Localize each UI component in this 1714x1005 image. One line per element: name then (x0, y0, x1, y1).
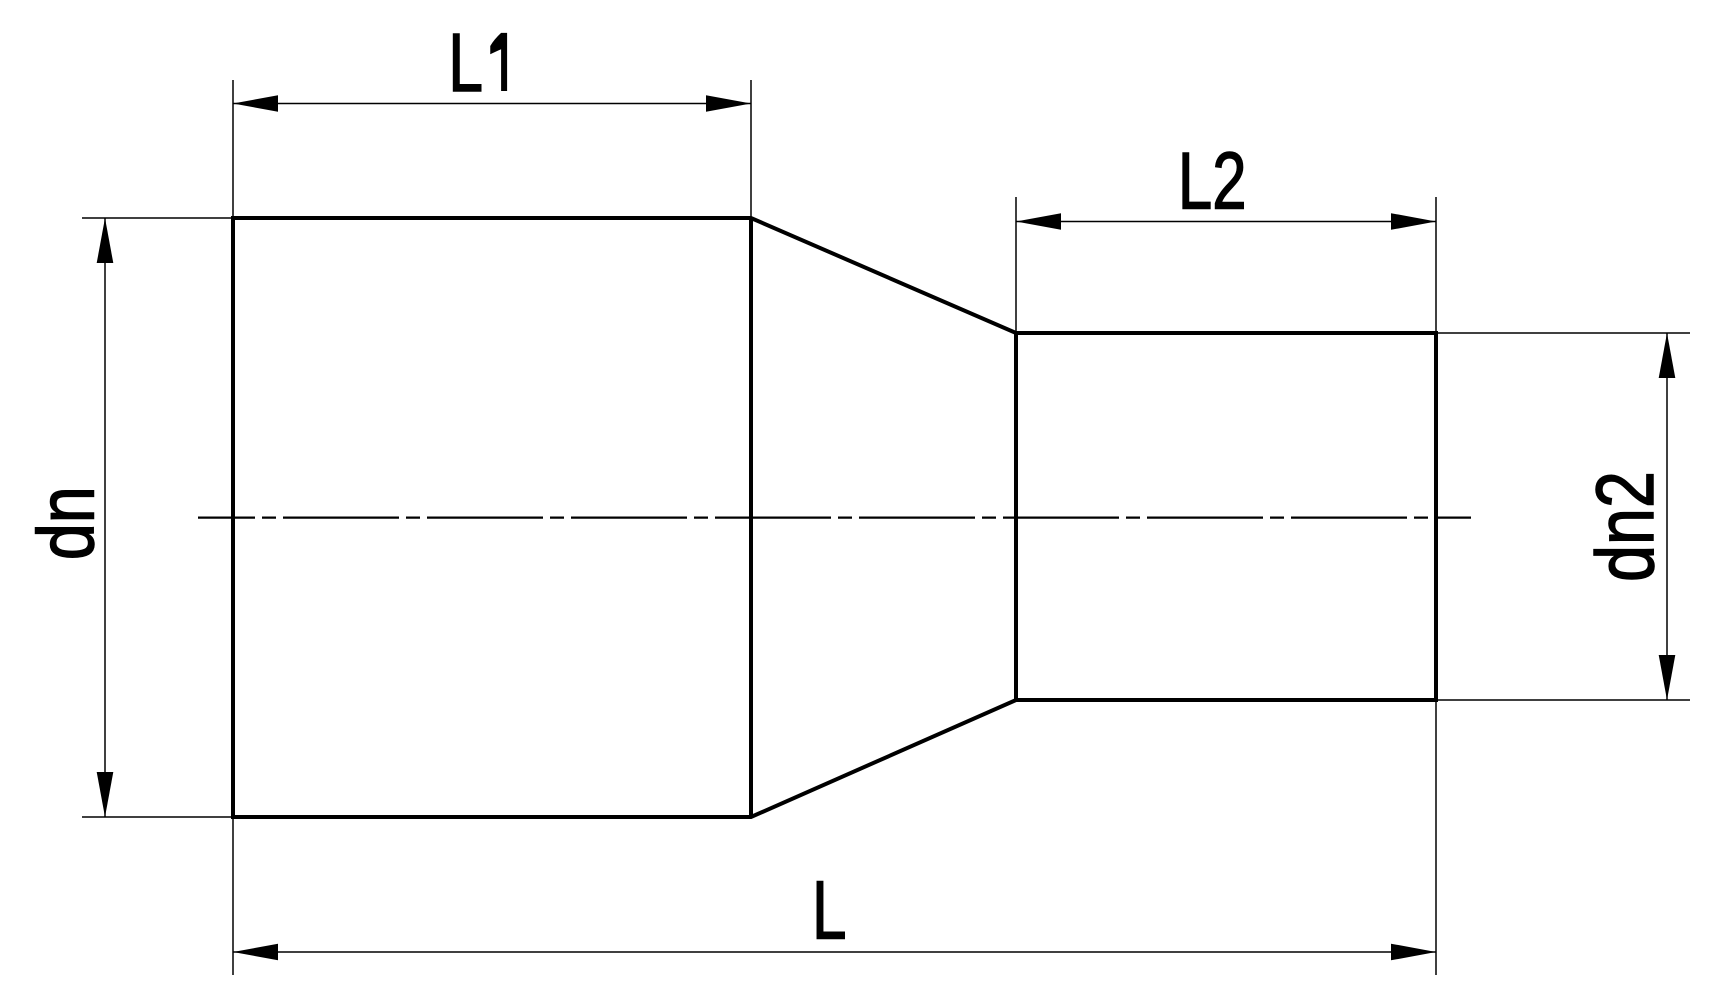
dn2 extension line bottom (1436, 699, 1690, 701)
svg-text:L: L (448, 16, 483, 109)
L2 arrow left (1016, 213, 1061, 230)
dn2 arrow top (1659, 333, 1676, 378)
dn dimension line (104, 218, 106, 817)
L2 dimension line (1016, 221, 1436, 223)
L1 extension line right (750, 80, 752, 218)
dn2 arrow bottom (1659, 655, 1676, 700)
L1 arrow right (706, 95, 751, 112)
dn2 dimension line (1666, 333, 1668, 700)
L arrow right (1391, 944, 1436, 961)
svg-text:dn: dn (20, 486, 110, 560)
svg-text:L: L (812, 865, 847, 956)
L2 extension line right (1435, 197, 1437, 333)
dn2 extension line top (1436, 332, 1690, 334)
dn arrow bottom (97, 772, 114, 817)
dn extension line bottom (82, 816, 233, 818)
L1 dimension line (233, 103, 751, 105)
L2 arrow right (1391, 213, 1436, 230)
dn arrow top (97, 218, 114, 263)
dn extension line top (82, 217, 233, 219)
L arrow left (233, 944, 278, 961)
centerline (198, 516, 1471, 518)
L extension line left (232, 817, 234, 975)
reducer body outline (233, 218, 1436, 817)
L dimension line (233, 951, 1436, 953)
L2 extension line left (1015, 197, 1017, 333)
L extension line right (1435, 700, 1437, 975)
L1 arrow left (233, 95, 278, 112)
L1 extension line left (232, 80, 234, 218)
svg-text:dn2: dn2 (1578, 471, 1670, 582)
svg-text:L2: L2 (1178, 136, 1247, 226)
